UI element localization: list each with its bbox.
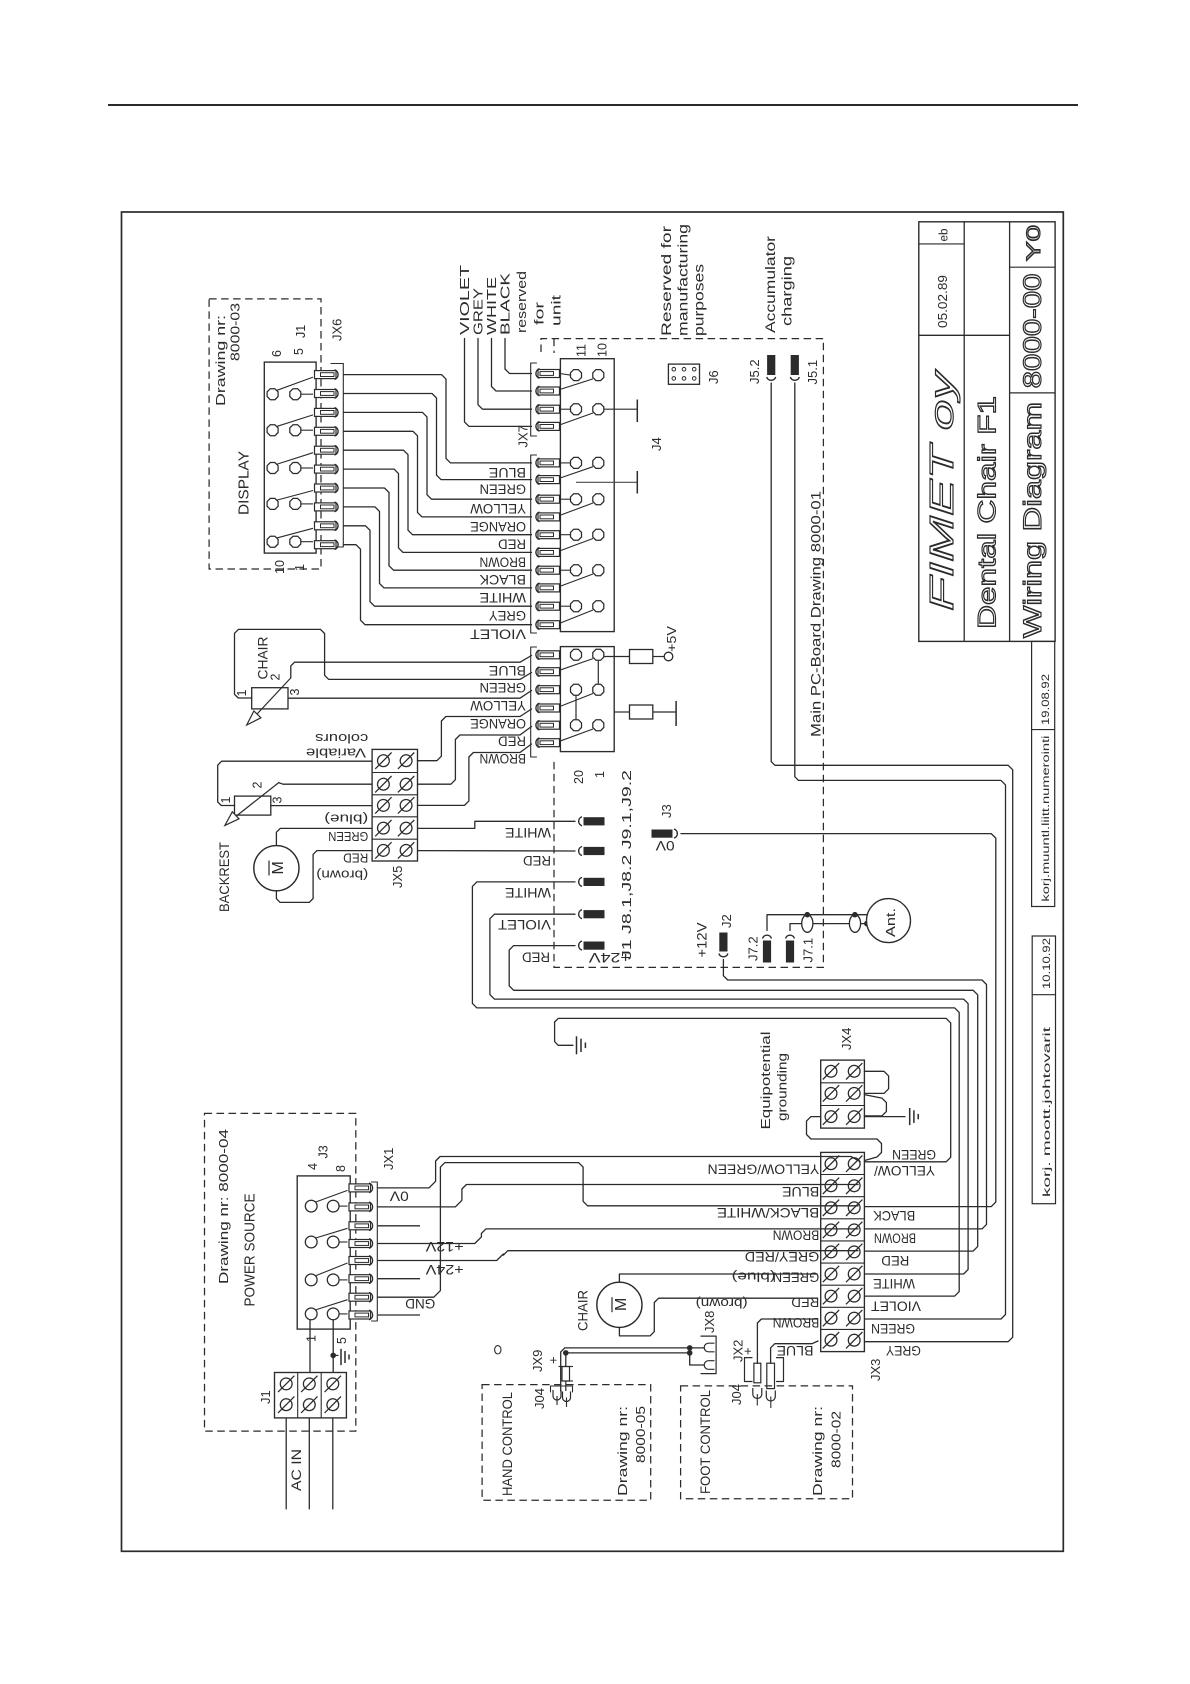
svg-text:11: 11 [575, 344, 589, 357]
wire color label ORANGE (J1 main) [470, 716, 526, 732]
wire JX9 fuse to JX8 lower [565, 1353, 567, 1367]
label + (jx9) [546, 1356, 561, 1364]
wire backrest pin1 to JX5 row1 [218, 761, 372, 805]
svg-text:reserved: reserved [514, 271, 529, 333]
net label BLACK (reserved unit wire) [498, 273, 513, 335]
connector J1 display block [264, 362, 316, 553]
junction dots antenna circuit [805, 912, 811, 918]
wire RED +24V loop to JX3 row5 [509, 946, 978, 1252]
label J5.2 [747, 359, 762, 384]
wire color label RED (JX7) [498, 537, 526, 553]
terminal JX5 row 2 [378, 778, 390, 790]
ferrite bead 1 [802, 915, 813, 933]
connector J1 display contact pair row 3 [267, 463, 278, 474]
terminal JX5 row 5 [378, 845, 390, 857]
terminal JX3 row 7 [825, 1290, 837, 1302]
connector JX8 sockets [704, 1343, 714, 1352]
label J6 [706, 370, 721, 384]
svg-text:5: 5 [335, 1337, 349, 1344]
connector J3 contact pair row 4 [305, 1308, 317, 1320]
pin J5.1 [790, 377, 799, 380]
wire chair pot pin1 / GREEN to J1 pin2 [235, 629, 532, 698]
label +24V [588, 950, 631, 966]
net label WHITE (reserved unit wire) [484, 277, 499, 335]
label J2 [719, 914, 734, 928]
terminal J1 power col3 row2 [327, 1399, 339, 1411]
label 20 [572, 770, 586, 784]
svg-text:GREY/RED: GREY/RED [745, 1249, 819, 1265]
svg-text:J6: J6 [706, 370, 721, 384]
label (blue) [324, 812, 368, 827]
svg-text:+: + [740, 1347, 755, 1355]
svg-text:YELLOW: YELLOW [469, 501, 526, 517]
svg-text:FIMET oy: FIMET oy [923, 368, 960, 611]
wire JX1 pin6 stub [378, 1278, 420, 1280]
svg-text:VIOLET: VIOLET [871, 1299, 921, 1315]
label CHAIR [256, 636, 271, 679]
connector J04 foot control sockets [753, 1388, 762, 1399]
svg-text:VIOLET: VIOLET [470, 627, 526, 643]
label 1 (chair pot) [235, 690, 249, 697]
svg-text:RED: RED [498, 537, 526, 553]
svg-text:JX1: JX1 [381, 1148, 396, 1170]
svg-text:1: 1 [305, 1335, 319, 1342]
svg-text:DISPLAY: DISPLAY [237, 451, 253, 515]
svg-text:8000-05: 8000-05 [633, 1406, 648, 1463]
svg-text:POWER SOURCE: POWER SOURCE [243, 1193, 259, 1306]
wire +12V J2 to JX3 row4 [723, 960, 986, 1229]
connector JX6 pin 9 [315, 522, 337, 530]
pin J8.1 (black) [579, 817, 582, 826]
wire JX6 pin1 to JX7 pin1 [344, 375, 532, 463]
connector JX7 pin 5 [538, 459, 560, 467]
net label VIOLET (reserved unit wire) [457, 265, 472, 335]
wire GREY to JX7 pin [478, 339, 532, 410]
connector JX1 pin 6 [349, 1275, 371, 1283]
label Ant. [884, 908, 898, 937]
title block frame [919, 222, 1055, 642]
wire JX1 pin1 to JX3 row1 [378, 1157, 860, 1188]
svg-text:0V: 0V [390, 1188, 409, 1203]
svg-text:CHAIR: CHAIR [576, 1290, 591, 1331]
wire J5.2 to JX3 row9 (GREY) [771, 383, 1013, 1342]
open terminator on J4 row2 [604, 408, 637, 410]
wire J7.2 to Ant [767, 915, 867, 931]
connector JX7 pin 14 [538, 621, 560, 629]
wire JX4 row2-row3 link [864, 1095, 886, 1116]
terminal block JX4 [821, 1060, 865, 1128]
label JX5 [390, 866, 405, 888]
svg-text:J1: J1 [294, 325, 308, 338]
terminal JX5 row 1 [378, 755, 390, 767]
svg-text:BLUE: BLUE [777, 1343, 814, 1359]
wire WHITE to JX7 pin [492, 339, 532, 392]
terminal block JX5 [372, 749, 417, 861]
svg-text:BLACK: BLACK [479, 572, 526, 588]
connector J1 main pin 2 [538, 668, 560, 676]
wire JX6 pin6 to JX7 pin6 [344, 469, 532, 552]
terminal JX4 row 1 [825, 1065, 837, 1077]
connector JX1 pin 8 [349, 1311, 371, 1319]
svg-text:Drawing nr:: Drawing nr: [213, 315, 228, 406]
svg-text:charging: charging [780, 256, 795, 326]
svg-text:8000-00: 8000-00 [1019, 273, 1047, 388]
connector JX7 label [516, 425, 531, 447]
svg-text:6: 6 [270, 350, 284, 357]
svg-text:GND: GND [405, 1296, 435, 1311]
connector JX6 pin 7 [315, 484, 337, 492]
svg-text:10: 10 [596, 343, 610, 357]
connector JX6 label [330, 319, 345, 341]
svg-text:Drawing nr:: Drawing nr: [615, 1406, 630, 1496]
connector J1 display contact pair row 2 [267, 425, 278, 436]
wire J3 to J1 power col3 with ground branch [332, 1319, 334, 1372]
svg-text:Dental Chair F1: Dental Chair F1 [974, 396, 1002, 629]
labels JX3 left side [708, 1161, 820, 1177]
junction dots JX9/JX8 [563, 1350, 569, 1356]
svg-text:BLUE: BLUE [489, 663, 526, 679]
foot control dashed enclosure [681, 1386, 853, 1499]
label JX4 [839, 1028, 854, 1050]
wire JX2 left fuse to JX3 row8 [757, 1319, 817, 1363]
wire WHITE loop to JX3 row7 [472, 882, 959, 1296]
connector JX8 shroud [701, 1336, 716, 1374]
wire JX1 pin2 BLUE to JX3 row2 [378, 1185, 858, 1207]
label pin 6 [270, 350, 284, 357]
terminal JX3 row 3 [825, 1202, 837, 1214]
svg-text:J5.2: J5.2 [747, 359, 762, 384]
wire backrest pin2 to JX5 row2 [279, 783, 372, 785]
wire color label BROWN (J1 main) [480, 751, 527, 767]
svg-text:JX6: JX6 [330, 319, 345, 341]
svg-text:1: 1 [235, 690, 249, 697]
svg-text:J3: J3 [317, 1145, 331, 1158]
terminal JX4 row 2 [825, 1088, 837, 1100]
svg-text:RED: RED [522, 950, 550, 966]
svg-text:GREEN: GREEN [480, 482, 527, 498]
label 0V (jx1) [390, 1188, 409, 1203]
svg-text:Accumulator: Accumulator [763, 235, 778, 333]
revision text 19.08.92 [1040, 674, 1052, 725]
label 10 [596, 343, 610, 357]
connector J1 main internal links [597, 661, 599, 684]
terminal JX3 row 6 [825, 1268, 837, 1280]
label reserved for unit [514, 271, 529, 333]
svg-text:05.02.89: 05.02.89 [936, 275, 950, 328]
wire JX4 row3 to ground [864, 1116, 905, 1118]
svg-text:0V: 0V [656, 838, 675, 853]
svg-text:BLUE: BLUE [489, 465, 526, 481]
connector J4 contact pair row 1 [560, 374, 570, 376]
wire JX1 pin8 stub [378, 1314, 420, 1316]
connector JX1 label [381, 1148, 396, 1170]
terminal block J1 power (AC) [275, 1373, 347, 1418]
wire JX6 pin4 to JX7 pin4 [344, 431, 532, 517]
svg-text:purposes: purposes [692, 264, 707, 336]
svg-text:+12V: +12V [695, 923, 710, 958]
svg-text:RED: RED [523, 853, 551, 869]
terminal J1 power col3 row1 [327, 1378, 339, 1390]
svg-text:J2: J2 [719, 914, 734, 928]
svg-text:JX5: JX5 [390, 866, 405, 888]
labels JX3 right side [874, 1163, 935, 1179]
wire BLACK to JX7 pin [505, 339, 532, 374]
terminal JX3 row 9 [825, 1334, 837, 1346]
label GREEN (jx5) [328, 829, 368, 844]
wire color label BLUE (JX7) [489, 465, 526, 481]
label Variable colours [306, 745, 366, 760]
svg-text:3: 3 [271, 797, 285, 804]
label +24V (jx1) [426, 1262, 464, 1277]
label JX9 [530, 1350, 545, 1372]
svg-text:BLACK/WHITE: BLACK/WHITE [717, 1205, 819, 1221]
label 1 (j3) [305, 1335, 319, 1342]
label 11 [575, 344, 589, 357]
svg-text:VIOLET: VIOLET [498, 917, 551, 933]
svg-text:5: 5 [292, 348, 306, 355]
wire JX6 pin8 to JX7 pin8 [344, 507, 532, 588]
svg-text:eb: eb [939, 229, 951, 242]
svg-text:JX7: JX7 [516, 425, 531, 447]
resistor R2 [614, 711, 629, 713]
wire color label YELLOW (J1 main) [469, 698, 526, 714]
potentiometer chair body [252, 688, 288, 709]
wire RED JX5.5 to pin J8.2 [418, 850, 576, 852]
fuse JX2 left [754, 1363, 761, 1383]
label J3 (power) [317, 1145, 331, 1158]
svg-text:J7.2: J7.2 [746, 936, 761, 961]
connector JX6 pin 4 [315, 427, 337, 435]
wire JX2 right fuse to JX3 row9 BLUE [771, 1341, 818, 1363]
power source dashed enclosure [205, 1113, 356, 1431]
connector J1 display contact pair row 5 [267, 536, 278, 547]
svg-text:YELLOW: YELLOW [469, 698, 526, 714]
connector J04 hand control [551, 1386, 573, 1392]
label GREEN (jx4 loop) [892, 1147, 936, 1163]
label +12V [695, 923, 710, 958]
wire JX6 pin9 to JX7 pin9 [344, 526, 532, 606]
svg-text:M: M [270, 861, 287, 874]
svg-text:Variable: Variable [306, 745, 366, 760]
svg-text:for: for [532, 301, 547, 325]
wire color label RED (J1 main) [498, 733, 526, 749]
svg-text:(blue): (blue) [324, 812, 368, 827]
pin J9.1 (black) [579, 877, 582, 886]
svg-text:+12V: +12V [426, 1239, 464, 1254]
svg-text:(blue): (blue) [732, 1270, 776, 1285]
wire motor bottom to JX5 row5 [276, 851, 372, 903]
label J5.1 [805, 360, 820, 385]
svg-text:YELLOW/: YELLOW/ [874, 1163, 935, 1179]
connector JX1 pin 5 [349, 1257, 371, 1265]
terminal JX3 row 8 [825, 1312, 837, 1324]
wire color label YELLOW (JX7) [469, 501, 526, 517]
connector J6 [668, 364, 699, 384]
svg-text:ORANGE: ORANGE [470, 716, 526, 732]
wire JX4 row1-row2 link [864, 1071, 888, 1093]
revision strip 1 frame [1032, 641, 1055, 906]
connector JX7 pin 10 [538, 548, 560, 556]
svg-text:GREEN: GREEN [892, 1147, 936, 1163]
terminal JX3 row 5 [825, 1246, 837, 1258]
wire JX6 pin10 to JX7 pin10 [344, 545, 532, 625]
svg-text:4: 4 [306, 1163, 320, 1170]
svg-text:JX4: JX4 [839, 1028, 854, 1050]
wire color label BLUE (J1 main) [489, 663, 526, 679]
svg-text:M: M [613, 1298, 630, 1311]
title text: 8000-00 [1019, 273, 1047, 388]
terminal JX4 row 3 [825, 1111, 837, 1123]
svg-text:JX9: JX9 [530, 1350, 545, 1372]
wire JX6 pin2 to JX7 pin2 [344, 394, 532, 480]
svg-text:GREEN: GREEN [480, 680, 527, 696]
revision text korj. moott.johtovarit [1041, 1027, 1053, 1197]
connector J4 lower contact pair row 5 [560, 605, 570, 607]
connector JX1 pin 2 [349, 1203, 371, 1211]
label (brown) [316, 868, 368, 883]
pin J7.1 [786, 935, 795, 938]
connector J1 main contact pair row 3 [560, 729, 593, 741]
connector J1 main pin 4 [538, 704, 560, 712]
label 8 [334, 1165, 348, 1172]
pin J9.2 (black) [579, 910, 582, 919]
svg-text:10.10.92: 10.10.92 [1041, 938, 1053, 989]
label 1 (backrest pot) [219, 797, 233, 804]
ground symbol (equipotential) [909, 1108, 911, 1125]
svg-text:19.08.92: 19.08.92 [1040, 674, 1052, 725]
connector J1 main contact pair row 2 [560, 694, 593, 707]
drawing sheet border [122, 212, 1064, 1551]
wire VIOLET to JX7 pin [465, 339, 532, 427]
connector J1 display contact pair row 4 [267, 498, 278, 509]
svg-text:BROWN: BROWN [874, 1230, 916, 1246]
label Main PC-Board Drawing 8000-01 [809, 491, 824, 737]
svg-text:JX3: JX3 [868, 1359, 883, 1381]
label JX8 [702, 1311, 717, 1333]
svg-text:manufacturing: manufacturing [676, 224, 691, 336]
terminal JX3 row 4 [825, 1224, 837, 1236]
label Drawing nr: 8000-02 [810, 1406, 825, 1496]
svg-text:unit: unit [549, 294, 564, 326]
connector J1 display contact pair row 1 [267, 389, 278, 400]
connector JX7 pin 3 [538, 405, 560, 413]
open terminator on J4 lower [576, 481, 637, 483]
svg-text:GREEN: GREEN [328, 829, 368, 844]
wire JX1 pin5 +24V to JX3 row5 [378, 1251, 858, 1261]
svg-text:Reserved for: Reserved for [659, 225, 674, 336]
wire JX1 pin3 stub [378, 1225, 420, 1227]
connector JX2 bracket [745, 1358, 753, 1382]
antenna Ant. circle [867, 899, 911, 943]
svg-text:WHITE: WHITE [480, 590, 527, 606]
title text: Y0 [1024, 225, 1045, 261]
label 2 (backrest pot) [251, 782, 265, 789]
wire chair motor top to JX3 row6 [619, 1274, 817, 1282]
connector JX7 pin 11 [538, 566, 560, 574]
+5V output circle [664, 652, 673, 661]
connector J4 lower contact pair row 1 [560, 462, 570, 464]
wire WHITE JX5.4 to pin J8.1 [418, 821, 576, 828]
terminal JX5 row 4 [378, 822, 390, 834]
label RED (+24V) [522, 950, 550, 966]
connector JX7 pin 6 [538, 476, 560, 484]
connector J1 main pin 5 [538, 721, 560, 729]
connector JX6 pin 10 [315, 541, 337, 549]
display label DISPLAY [237, 451, 253, 515]
label J04 (hand) [532, 1388, 547, 1409]
label VIOLET [498, 917, 551, 933]
svg-text:grounding: grounding [775, 1053, 790, 1121]
label RED (jx5) [343, 851, 368, 866]
wire J7.1 to Ant [790, 924, 867, 931]
connector J1 main pin 1 [538, 651, 560, 659]
connector JX6 pin 5 [315, 446, 337, 454]
svg-text:BACKREST: BACKREST [216, 842, 232, 912]
svg-text:1: 1 [593, 771, 607, 778]
pin J8.2 (black) [579, 847, 582, 856]
label J7.1 [801, 938, 816, 963]
connector JX1 shroud [372, 1182, 378, 1321]
label HAND CONTROL [499, 1392, 515, 1496]
svg-text:8: 8 [334, 1165, 348, 1172]
ground symbol (main) [576, 1036, 578, 1054]
unconnected circle o [495, 1346, 501, 1354]
wire JX1 pin4 +12V to JX3 row4 [378, 1229, 858, 1244]
motor M chair [597, 1282, 642, 1327]
svg-text:Main PC-Board Drawing 8000-01: Main PC-Board Drawing 8000-01 [809, 491, 824, 737]
label pin 10 [273, 560, 287, 574]
wire hand control to JX8 upper [561, 1348, 704, 1391]
connector J1 main contact pair row 1 [560, 659, 593, 671]
label J04 (foot) [729, 1384, 744, 1405]
svg-text:J1 J8.1,J8.2 J9.1,J9.2: J1 J8.1,J8.2 J9.1,J9.2 [619, 770, 634, 960]
connector J3 contact pair row 1 [305, 1200, 317, 1212]
svg-text:WHITE: WHITE [505, 885, 551, 901]
wire JX6 pin7 to JX7 pin7 [344, 488, 532, 570]
label RED [523, 853, 551, 869]
svg-text:(brown): (brown) [316, 868, 368, 883]
connector J4 lower contact pair row 2 [560, 498, 570, 500]
svg-text:GREEN: GREEN [773, 1270, 820, 1286]
label WHITE [505, 825, 551, 841]
connector JX6 pin 2 [315, 390, 337, 398]
svg-text:1: 1 [219, 797, 233, 804]
potentiometer backrest wiper arrow [228, 783, 279, 823]
label pin 1 [293, 564, 307, 571]
open terminator R2 [675, 701, 677, 726]
wire color label GREY (JX7) [488, 608, 526, 624]
pin J2 (+12V) [719, 954, 728, 957]
svg-text:RED: RED [498, 733, 526, 749]
wire earth from JX3 row1 to chassis ground [555, 1018, 951, 1161]
svg-text:ORANGE: ORANGE [470, 519, 526, 535]
terminal JX3 row 2 [825, 1180, 837, 1192]
terminal J1 power col2 row1 [303, 1378, 315, 1390]
connector J1 main block [560, 647, 614, 752]
svg-text:3: 3 [288, 689, 302, 696]
svg-text:1: 1 [293, 564, 307, 571]
svg-text:BROWN: BROWN [480, 751, 527, 767]
svg-text:FOOT CONTROL: FOOT CONTROL [697, 1390, 713, 1494]
wire color label ORANGE (JX7) [470, 519, 526, 535]
connector JX1 pin 3 [349, 1222, 371, 1230]
svg-text:GREEN: GREEN [871, 1321, 915, 1337]
label POWER SOURCE [243, 1193, 259, 1306]
label Accumulator charging [763, 235, 778, 333]
wire JX9 fuse bottom to J04 [565, 1381, 567, 1391]
title text: FIMET oy [923, 368, 960, 611]
wire JX6 pin3 to JX7 pin3 [344, 412, 532, 499]
